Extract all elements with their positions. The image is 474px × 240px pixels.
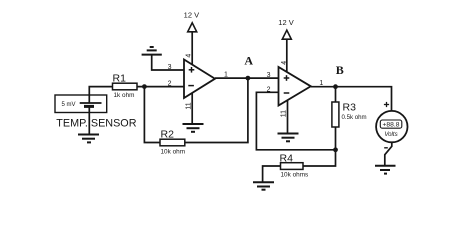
op-amp U1 plus glyph [189, 67, 195, 73]
wire node B down to R3 [335, 87, 337, 102]
resistor R4 [281, 163, 304, 170]
node junction R3/R4/feedback [333, 147, 338, 152]
wire ground to op-amp U1 pin 3 [152, 55, 184, 70]
wire U2 output to meter corner [311, 87, 392, 111]
svg-text:+88.8: +88.8 [383, 122, 400, 129]
resistor R3 [332, 102, 339, 127]
op-amp U1 [184, 60, 215, 99]
svg-text:3: 3 [267, 72, 271, 79]
svg-text:1k ohm: 1k ohm [114, 92, 135, 99]
battery V1 plates (5 mV source) [80, 103, 102, 106]
resistor R2 [160, 139, 185, 146]
svg-text:A: A [244, 54, 253, 68]
node B junction [333, 84, 338, 89]
temp sensor box [55, 95, 107, 113]
node junction R1 output [142, 84, 147, 89]
wire U2 pin 4 up to 12V arrow [286, 39, 288, 72]
wire U1 pin 11 down to ground [191, 93, 193, 124]
svg-text:R2: R2 [161, 129, 175, 141]
wire R1 to op-amp U1 pin 2 [137, 86, 184, 88]
ground (sensor) [78, 135, 99, 143]
svg-text:3: 3 [168, 64, 172, 71]
svg-text:0.5k ohm: 0.5k ohm [342, 114, 367, 121]
svg-text:Volts: Volts [384, 131, 397, 138]
voltmeter plus mark [384, 102, 389, 107]
wire R3 bottom through junction to R4 [303, 127, 336, 166]
ground (op-amp U2) [278, 134, 299, 142]
wire junction down to R2 [144, 87, 160, 143]
wire R2 right to node A vertical [185, 78, 248, 142]
voltmeter display box [380, 120, 402, 128]
wire U1 output to U2 pin 3 [215, 77, 279, 79]
svg-text:R1: R1 [113, 73, 127, 85]
wire U2 pin 2 feedback path [256, 92, 335, 150]
svg-text:2: 2 [267, 86, 271, 93]
op-amp U2 minus glyph [284, 92, 290, 94]
wire sensor top to R1 [89, 87, 112, 103]
svg-text:5 mV: 5 mV [62, 102, 76, 108]
svg-text:12 V: 12 V [184, 11, 199, 20]
svg-text:10k ohms: 10k ohms [281, 171, 309, 178]
op-amp U2 [279, 67, 311, 106]
svg-text:TEMP. SENSOR: TEMP. SENSOR [56, 118, 136, 130]
wire meter bottom jog to ground [385, 142, 392, 166]
svg-text:R4: R4 [280, 152, 294, 164]
resistor R1 [113, 83, 138, 90]
ground (meter) [375, 166, 396, 174]
voltmeter M1 circle [376, 111, 407, 142]
svg-text:R3: R3 [343, 102, 357, 114]
svg-text:11: 11 [281, 110, 288, 117]
op-amp U1 minus glyph [188, 85, 194, 87]
ground (R4) [253, 182, 274, 189]
node A junction [246, 76, 251, 81]
svg-text:12 V: 12 V [278, 18, 293, 27]
op-amp U2 plus glyph [284, 75, 290, 81]
power 12V arrow #2 [282, 30, 291, 39]
svg-text:10k ohm: 10k ohm [161, 149, 186, 156]
power 12V arrow #1 [188, 23, 197, 32]
svg-text:B: B [336, 63, 344, 77]
wire R4 left to ground [263, 166, 281, 182]
wire U1 pin 4 up to 12V arrow [191, 32, 193, 65]
svg-text:2: 2 [168, 81, 172, 88]
wire battery bottom to ground [88, 106, 90, 134]
ground (inverted, at op-amp U1 pin 3) [142, 47, 162, 55]
wire U2 pin 11 down to ground [287, 101, 289, 134]
ground (op-amp U1) [183, 124, 204, 132]
voltmeter minus mark [384, 147, 388, 149]
